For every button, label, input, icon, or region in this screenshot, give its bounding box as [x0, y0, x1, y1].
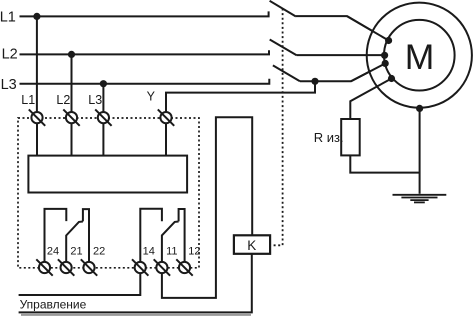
wire Y to L3 node [166, 81, 315, 112]
wire contact 11 to coil K [162, 117, 252, 298]
junction motor R tap [388, 75, 395, 82]
svg-text:Управление: Управление [20, 298, 87, 312]
resistor R из. [341, 119, 360, 155]
wire L2 into motor [366, 54, 385, 56]
terminal 21 [58, 259, 74, 275]
terminal Y [158, 109, 174, 125]
switch K3 blade [273, 65, 300, 81]
relay device body U1 [28, 156, 187, 193]
junction motor frame [416, 105, 423, 112]
contactor coil K [234, 235, 270, 254]
junction Y/L3 [311, 78, 318, 85]
terminal L1 [29, 109, 45, 125]
wire switch K1 to motor [296, 16, 389, 40]
terminal 22 [81, 259, 97, 275]
terminal 24 [36, 259, 52, 275]
wire motor tap to resistor [350, 79, 391, 120]
wire contact 14 to control [19, 273, 141, 295]
wire terminal Y to device [165, 123, 167, 155]
svg-text:Y: Y [147, 89, 156, 103]
junction on L3 [100, 80, 107, 87]
terminal L2 [63, 109, 79, 125]
junction motor phase 1 [385, 37, 392, 44]
ground [393, 195, 447, 203]
svg-text:K: K [247, 238, 256, 253]
svg-text:L2: L2 [56, 93, 70, 107]
wire terminal L3 to device [102, 123, 104, 155]
svg-text:24: 24 [47, 245, 59, 257]
svg-text:R из.: R из. [314, 130, 344, 145]
terminal 11 [154, 259, 170, 275]
mechanical link K dotted [270, 9, 282, 246]
wire L1 bus [20, 11, 269, 16]
wire terminal L2 to device [71, 123, 73, 155]
contact fixed NO 24 [45, 209, 67, 262]
wire motor frame to ground [419, 108, 421, 194]
svg-text:M: M [405, 37, 435, 77]
svg-text:L3: L3 [88, 93, 102, 107]
contact fixed NO 14 [140, 209, 162, 262]
wire switch K2 to motor [297, 54, 385, 56]
control bus shadow [21, 314, 251, 316]
wire L1 tap down [36, 16, 38, 112]
junction on L1 [33, 13, 40, 20]
svg-text:L1: L1 [21, 93, 35, 107]
wire switch K3 to motor [300, 63, 385, 81]
wire terminal L1 to device [36, 123, 38, 155]
relay device dashed enclosure [18, 118, 199, 268]
contact fixed NC 22 [83, 209, 89, 262]
svg-text:L1: L1 [0, 10, 16, 26]
terminal 12 [176, 259, 192, 275]
motor M1 outer [367, 3, 472, 108]
wire resistor to ground run [350, 155, 419, 172]
wire coil K to control [19, 254, 252, 313]
motor M1 inner [384, 20, 455, 91]
junction motor phase 3 [382, 60, 389, 67]
svg-text:11: 11 [166, 245, 177, 257]
wire L2 bus [20, 50, 270, 54]
switch K1 blade [270, 1, 296, 17]
wire L3 bus [20, 79, 270, 84]
svg-text:14: 14 [143, 245, 155, 257]
wire L2 tap down [71, 54, 73, 112]
terminal 14 [132, 259, 148, 275]
contact fixed NC 12 [179, 209, 185, 262]
svg-text:L2: L2 [2, 46, 18, 62]
wire L3 into motor [351, 63, 385, 81]
contact common arm 21 [66, 222, 83, 263]
contact common arm 11 [162, 222, 179, 263]
switch K2 blade [270, 40, 297, 56]
svg-text:12: 12 [188, 245, 200, 257]
wire L3 tap down [102, 84, 104, 112]
wire L1 into motor [347, 16, 389, 40]
terminal L3 [95, 109, 111, 125]
svg-text:21: 21 [70, 245, 82, 257]
junction on L2 [68, 51, 75, 58]
junction motor phase 2 [381, 52, 388, 59]
svg-text:L3: L3 [1, 77, 17, 93]
svg-text:22: 22 [93, 245, 105, 257]
